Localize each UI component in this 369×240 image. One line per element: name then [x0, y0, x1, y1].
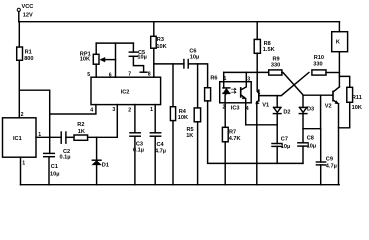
resistor R4: [170, 64, 188, 185]
svg-text:0.1µ: 0.1µ: [133, 147, 144, 153]
node VCC terminal: [17, 4, 33, 18]
resistor R2: [74, 122, 88, 140]
potentiometer RP1: [80, 43, 116, 77]
svg-text:10K: 10K: [178, 115, 188, 121]
svg-text:C1: C1: [51, 164, 58, 170]
wire V1 emitter to ground: [256, 125, 258, 185]
resistor R8: [254, 22, 274, 54]
wire IC2 pin6: [115, 43, 117, 77]
svg-text:1K: 1K: [186, 133, 193, 139]
svg-text:0.1µ: 0.1µ: [60, 155, 71, 161]
wire cross diag R9 to V2 base: [282, 73, 303, 96]
capacitor C6: [184, 48, 199, 68]
svg-text:2: 2: [128, 108, 131, 114]
svg-text:7: 7: [128, 72, 131, 78]
svg-text:4: 4: [90, 108, 93, 114]
svg-text:1: 1: [224, 76, 227, 82]
resistor R1: [17, 22, 34, 62]
wire R3 branch to C6: [154, 63, 184, 65]
wire IC3 pin1/pin3 rail: [224, 71, 269, 73]
svg-text:10µ: 10µ: [190, 54, 199, 60]
svg-text:R10: R10: [314, 55, 324, 61]
capacitor C7: [272, 137, 290, 164]
transistor V2: [325, 87, 340, 110]
capacitor C2: [60, 132, 71, 161]
wire R8 to V1 collector: [257, 53, 259, 93]
svg-text:330: 330: [313, 61, 322, 67]
resistor R5: [186, 64, 200, 185]
IC1: [3, 112, 42, 167]
wire pin4 feed: [50, 105, 96, 114]
resistor R11: [347, 87, 362, 111]
wire IC1 pin1 to ground: [20, 157, 22, 185]
svg-text:IC2: IC2: [121, 90, 130, 96]
wire R2 to IC2 pin3: [88, 105, 118, 138]
svg-text:1: 1: [150, 107, 153, 113]
svg-text:IC3: IC3: [231, 106, 240, 112]
svg-text:10K: 10K: [80, 57, 90, 63]
svg-text:4.7µ: 4.7µ: [326, 164, 337, 170]
relay K: [332, 32, 348, 52]
wire D3 branch to C9: [303, 128, 321, 130]
wire R3 to IC2 pin8: [153, 48, 155, 77]
wire V2 emitter to ground: [338, 104, 340, 185]
wire R6 bottom to C7/C8 row: [208, 101, 303, 163]
resistor R7: [222, 103, 240, 185]
capacitor C5: [129, 43, 147, 72]
capacitor C1: [44, 153, 60, 184]
svg-text:R7: R7: [229, 129, 236, 135]
wire K bottom to V2 collector: [338, 52, 340, 87]
svg-text:10µ: 10µ: [50, 172, 59, 178]
wire IC3 pin4 to emitter row: [245, 103, 247, 125]
svg-text:2: 2: [21, 112, 24, 118]
svg-text:R6: R6: [210, 75, 217, 81]
svg-text:3: 3: [247, 76, 250, 82]
svg-text:10µ: 10µ: [281, 144, 290, 150]
svg-text:8: 8: [148, 72, 151, 78]
capacitor C9: [316, 129, 336, 185]
diode D2: [273, 96, 290, 144]
svg-text:4.7µ: 4.7µ: [155, 149, 166, 155]
svg-text:5: 5: [87, 72, 90, 78]
svg-text:D3: D3: [307, 106, 314, 112]
wire branch to R11: [339, 76, 349, 87]
svg-text:330: 330: [271, 63, 280, 69]
svg-text:C4: C4: [157, 142, 165, 148]
svg-text:R11: R11: [352, 95, 362, 101]
wire cross diag R10 to V1 base: [260, 73, 309, 96]
svg-text:10K: 10K: [352, 105, 362, 111]
svg-text:C8: C8: [307, 136, 314, 142]
wire V2 base: [303, 94, 333, 96]
wire R10 to K line: [326, 72, 339, 74]
svg-text:IC1: IC1: [13, 136, 22, 142]
resistor R6: [205, 75, 218, 100]
svg-text:4.7K: 4.7K: [229, 136, 241, 142]
svg-text:3: 3: [112, 107, 115, 113]
diode D1: [92, 137, 109, 184]
capacitor C8: [298, 136, 316, 164]
resistor R3: [151, 22, 167, 50]
wire R11 bottom to emitter: [339, 102, 350, 128]
svg-text:1: 1: [22, 161, 25, 167]
svg-text:10µ: 10µ: [307, 143, 316, 149]
svg-text:10µ: 10µ: [137, 55, 146, 61]
wire V2 base branch down: [320, 95, 322, 129]
wire C6 to R6 corner: [188, 64, 207, 88]
opto-coupler IC3: [220, 72, 252, 112]
wire C2 to R2: [66, 136, 74, 138]
resistor R9: [269, 57, 282, 75]
wire VCC lead down: [18, 12, 20, 22]
svg-text:C6: C6: [189, 48, 196, 54]
svg-text:R1: R1: [25, 49, 32, 55]
svg-text:R5: R5: [187, 127, 194, 133]
svg-text:800: 800: [24, 56, 33, 62]
svg-text:C7: C7: [281, 137, 288, 143]
wire top supply rail: [19, 21, 340, 23]
svg-text:V1: V1: [262, 102, 269, 108]
capacitor C4: [150, 105, 166, 185]
wire R1 to IC1 pin2: [18, 60, 20, 118]
wire IC1 output: [36, 136, 61, 138]
diode D3: [299, 95, 314, 143]
svg-text:R2: R2: [77, 122, 84, 128]
svg-text:D1: D1: [102, 163, 109, 169]
svg-text:R3: R3: [157, 37, 164, 43]
svg-text:V2: V2: [325, 103, 332, 109]
svg-text:VCC: VCC: [22, 4, 34, 10]
resistor R10: [312, 55, 326, 75]
capacitor C3: [130, 105, 144, 185]
svg-text:12V: 12V: [23, 12, 33, 18]
wire RP1 top rail: [96, 42, 133, 44]
svg-text:10K: 10K: [156, 44, 166, 50]
wire emitter row: [246, 124, 278, 126]
wire rail to relay K: [338, 22, 340, 32]
svg-text:1.5K: 1.5K: [263, 47, 275, 53]
transistor V1: [256, 90, 269, 125]
svg-text:D2: D2: [283, 110, 290, 116]
svg-text:6: 6: [109, 73, 112, 79]
wire branch to node A: [19, 90, 49, 153]
IC2: [87, 72, 160, 114]
ground rail: [21, 184, 340, 186]
svg-text:C9: C9: [326, 156, 333, 162]
svg-text:1K: 1K: [78, 129, 85, 135]
svg-text:K: K: [336, 40, 340, 46]
